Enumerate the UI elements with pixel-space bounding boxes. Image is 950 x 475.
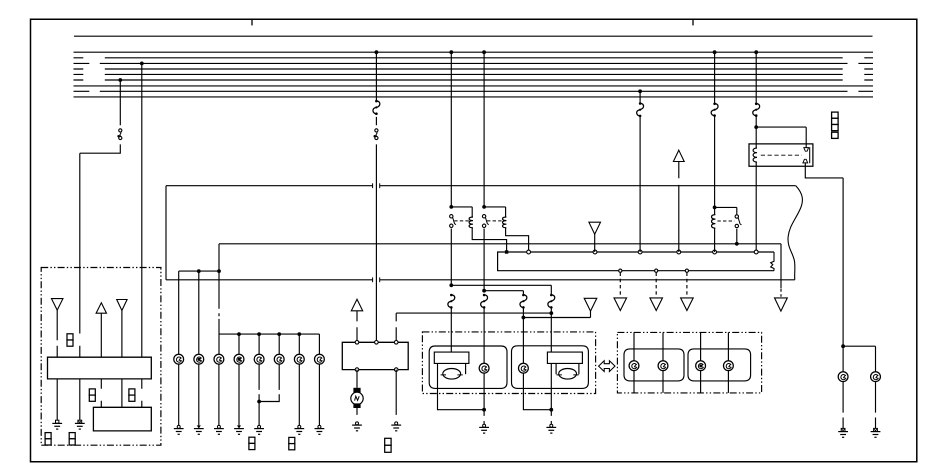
lamp1 wire <box>178 271 180 354</box>
right lamp 1 gnd wire <box>842 382 844 429</box>
to-marker triangle 1 <box>614 298 627 311</box>
junction on bus 6 <box>118 78 122 82</box>
opposite lamp dashed box <box>617 332 761 393</box>
lamp3 wire upper <box>218 271 220 354</box>
continuation wave <box>788 186 802 280</box>
headlamp A reflector <box>434 352 469 363</box>
lamp5 gnd wire <box>258 364 260 425</box>
line y318 <box>523 311 590 317</box>
to-marker stub 1 <box>619 273 621 297</box>
relay3 out wire <box>736 229 738 244</box>
line y313 <box>396 312 551 314</box>
junction on bus 1 (x484) <box>482 50 486 54</box>
unit C lamp 2 <box>658 361 668 371</box>
junction on bus 8 (x640) <box>638 89 642 93</box>
junction manifold 2 <box>277 332 281 336</box>
headlamp unit A outline <box>429 346 507 388</box>
DRL pin1 wire <box>356 311 358 343</box>
junction y410 B <box>549 408 553 412</box>
ground headlamp A <box>483 424 486 427</box>
junction x843 <box>841 344 845 348</box>
connector code b <box>129 389 135 395</box>
bus wire 2 <box>74 57 874 59</box>
right lamp 2 <box>871 372 881 382</box>
ground lamp4 <box>237 425 241 428</box>
lamp unit D outline <box>688 349 751 381</box>
to-marker triangle x781 <box>775 298 788 311</box>
to-marker stub 2 <box>655 273 657 297</box>
arrow marker (up) pin3 <box>96 303 106 313</box>
junction lamps 5-6 <box>257 400 261 404</box>
DRL pin circle 2 <box>375 341 379 345</box>
headlamp unit B outline <box>512 346 589 389</box>
pin1 wire <box>56 310 58 357</box>
junction x484 y291 <box>482 289 486 293</box>
main relay contact top <box>804 148 809 152</box>
block pin x679 <box>677 250 681 254</box>
arrow marker (down) pin4 <box>117 300 127 311</box>
harness line y186 (left) <box>166 185 373 187</box>
headlamp A out wire <box>438 363 485 409</box>
tail lamp bulb 3 <box>214 354 224 364</box>
relay3 coil <box>712 215 716 229</box>
block lower pin 2 <box>655 269 658 272</box>
lamp8 gnd wire <box>318 364 320 425</box>
relay2 junction <box>482 205 486 209</box>
relay3 link <box>717 220 734 222</box>
relay1 coil <box>469 217 473 228</box>
fuse x756 <box>753 103 760 116</box>
relay2 contact <box>482 215 485 218</box>
junction x451 y285 <box>449 283 453 287</box>
wire drop x640 <box>639 91 641 252</box>
branch y346 <box>843 346 875 372</box>
wire drop x715 <box>714 52 716 214</box>
lamp5 wire upper <box>258 334 260 354</box>
crossover y285 <box>451 285 551 294</box>
wire rect1 to rect2 c <box>141 379 143 407</box>
lamp2 gnd wire <box>198 364 200 425</box>
ground lamp2 <box>197 425 201 428</box>
main relay out left <box>755 166 757 250</box>
ground lamp3 <box>217 425 220 428</box>
harness line y186 (right) <box>380 185 796 187</box>
wire drop x376 <box>375 52 377 342</box>
DRL right gnd wire <box>395 370 397 415</box>
DRL relay block <box>342 342 408 369</box>
control unit block <box>48 357 152 379</box>
bus wire 9 <box>74 96 874 98</box>
arrow marker (down) pin1 <box>51 299 63 311</box>
wire rect1 to rect2 b <box>121 379 123 407</box>
to-marker triangle 2 <box>650 298 663 311</box>
ground motor <box>356 422 359 425</box>
connector code DRL <box>385 438 391 445</box>
unit C wire 1 <box>633 332 635 393</box>
lamp3 gnd wire <box>218 364 220 425</box>
block lower pin 1 <box>619 269 622 272</box>
loop left edge <box>165 186 167 280</box>
connector code a <box>89 389 95 395</box>
relay1 out wire <box>450 229 452 286</box>
unit D lamp 1 <box>696 361 706 371</box>
headlamp A bracket <box>465 363 467 374</box>
right lamp 1 <box>838 372 848 382</box>
ground right 1 <box>841 428 845 431</box>
relay1 link <box>454 220 469 222</box>
ground lamp8 <box>318 425 321 428</box>
bus wire 1 <box>74 51 874 53</box>
from-marker triangle x595 <box>589 222 601 234</box>
main relay block <box>749 144 813 166</box>
unit C lamp 1 <box>629 361 639 371</box>
to-marker triangle 3 <box>681 298 694 311</box>
junction manifold 3 <box>297 332 301 336</box>
bus wire 6 <box>74 79 874 81</box>
motor wire <box>356 370 358 388</box>
tail lamp bulb 1 <box>174 354 184 364</box>
inline connector x376 <box>375 129 378 132</box>
relay3 junction <box>713 206 717 210</box>
pin4 wire <box>121 311 123 358</box>
to-marker stub x781 <box>780 289 782 297</box>
main relay blade <box>809 147 811 163</box>
junction on bus 1 (x715) <box>713 50 717 54</box>
right lamp 1 wire <box>842 346 844 372</box>
lamp7 wire <box>298 334 300 354</box>
main relay contact stub bottom <box>804 163 806 166</box>
wire drop x451 <box>450 52 452 207</box>
headlamp B out wire <box>550 363 552 409</box>
relay2 out wire <box>483 229 485 291</box>
tail lamp bulb 6 <box>274 354 284 364</box>
junction x199 y271 <box>197 269 201 273</box>
tail lamp bulb 2 <box>194 354 204 364</box>
harness line y244 <box>219 244 781 288</box>
lamp1 gnd wire <box>178 364 180 425</box>
block pin x529 <box>527 250 531 254</box>
ground wire 2 <box>79 379 81 420</box>
right lamp 2 gnd wire <box>875 382 877 429</box>
fuse x451 <box>448 295 455 308</box>
fuse x551 <box>548 295 555 308</box>
junction on bus 1 (x756) <box>754 50 758 54</box>
connector code lamp7 <box>289 437 295 443</box>
junction y410 A <box>482 408 486 412</box>
ground lamp5 <box>258 425 261 428</box>
junction x737 y244 <box>735 242 739 246</box>
lamp unit C outline <box>624 349 684 381</box>
relay feed branch <box>756 127 806 144</box>
main relay contact stub top <box>805 144 807 148</box>
small lamp A <box>479 363 489 373</box>
relay3 coil out <box>714 228 716 252</box>
relay2 link <box>487 220 503 222</box>
relay3 contact branch <box>715 207 737 214</box>
lamp4 wire <box>238 334 240 354</box>
break tick b <box>379 183 381 188</box>
DRL pin circle 3 <box>394 341 398 345</box>
lamp6 wire upper <box>278 334 280 354</box>
relay1 block pin <box>505 250 508 253</box>
ground wire 1 <box>56 379 58 420</box>
tail lamp bulb 5 <box>254 354 264 364</box>
lamp8 wire <box>318 334 320 354</box>
fuse x376 <box>373 101 380 114</box>
from-marker triangle x590 <box>584 298 597 311</box>
small lamp B <box>519 363 529 373</box>
DRL pin circle 1 <box>355 341 359 345</box>
connector code c <box>45 433 51 439</box>
bus wire 8 <box>74 90 874 92</box>
junction on bus 1 (x451) <box>449 50 453 54</box>
inline connector on x120 wire <box>119 129 122 132</box>
relay2 coil branch <box>484 207 528 250</box>
manifold y271 <box>179 270 219 272</box>
wire x679 <box>678 162 680 253</box>
light control unit dashed box <box>41 268 161 446</box>
pin3 wire <box>100 313 102 357</box>
wire x595 <box>594 234 596 252</box>
junction on bus 1 (x376) <box>375 50 379 54</box>
gnd wire A <box>483 410 485 425</box>
wire x451 to headlamp <box>450 308 452 352</box>
block pin x756 <box>754 250 758 254</box>
block pin x640 <box>638 250 642 254</box>
sub block <box>93 407 151 431</box>
headlamp B reflector <box>547 352 582 363</box>
headlamp assembly dashed box <box>422 332 595 394</box>
small lamp A wire <box>483 373 485 410</box>
harness line y280 (right) <box>380 279 795 281</box>
unit C wire 2 <box>662 332 664 393</box>
unit D lamp 2 <box>724 361 734 371</box>
block lower pin 3 <box>685 269 688 272</box>
unit D wire 2 <box>727 332 729 393</box>
arrow marker (up) DRL <box>351 299 362 311</box>
junction x756 y127 <box>754 125 758 129</box>
break tick a <box>372 183 374 188</box>
block pin x715 <box>713 250 717 254</box>
wire x551 to headlamp <box>550 308 552 352</box>
junction manifold 0 <box>237 332 241 336</box>
connector code lamp5 <box>249 437 255 443</box>
lamp6 gnd wire <box>259 364 279 401</box>
fuse x640 <box>637 103 644 116</box>
arrow marker (up) x679 <box>673 150 684 161</box>
border tick mark left <box>251 19 253 25</box>
main relay contact bottom <box>803 159 808 163</box>
bus wire 5 <box>74 73 874 75</box>
junction x551 y313 <box>549 311 553 315</box>
lamp7 gnd wire <box>298 364 300 425</box>
DRL pin3 wire <box>395 313 397 342</box>
connector code d <box>69 433 75 439</box>
wire drop x142 <box>141 63 143 357</box>
manifold y334 <box>219 333 319 335</box>
relay3 contact <box>735 215 738 218</box>
wire x484 to lamp <box>483 308 485 363</box>
main relay link <box>761 154 802 156</box>
bus wire 7 <box>74 85 874 87</box>
block pin x595 <box>593 250 597 254</box>
top feed line <box>74 35 873 37</box>
ground lamp7 <box>298 425 301 428</box>
small lamp B wire <box>523 373 551 410</box>
headlamp B bracket <box>556 363 579 374</box>
connector stack <box>832 112 839 118</box>
relay1 contact <box>450 215 453 218</box>
motor gnd wire <box>356 408 358 415</box>
main relay coil <box>753 148 757 162</box>
tail lamp bulb 4 <box>234 354 244 364</box>
tail lamp bulb 8 <box>315 354 325 364</box>
border tick mark right <box>692 19 694 25</box>
crossover y291 <box>484 291 523 295</box>
motor M1 <box>353 388 360 393</box>
headlamp B bulb <box>559 369 577 380</box>
lamp2 wire <box>198 271 200 354</box>
junction x219 y271 <box>217 269 221 273</box>
wire drop x756 <box>755 52 757 144</box>
relay1 junction <box>449 205 453 209</box>
junction x523 y318 <box>522 316 526 320</box>
ground headlamp B <box>550 424 553 427</box>
relay1 coil branch <box>451 207 506 252</box>
to-marker stub 3 <box>686 273 688 297</box>
wire drop x484 <box>483 52 485 207</box>
fuse x715 <box>711 103 718 116</box>
break tick d <box>379 277 381 282</box>
relay2 coil <box>503 217 507 228</box>
break tick c <box>372 277 374 282</box>
tail lamp bulb 7 <box>294 354 304 364</box>
fuse x484 <box>481 295 488 308</box>
wire drop x120 <box>80 80 121 357</box>
ground right 2 <box>874 428 878 431</box>
wire rect1 to rect2 a <box>100 379 102 407</box>
DRL pin circle 4 <box>355 368 359 372</box>
junction block <box>498 252 774 271</box>
feed drop x219 <box>218 244 220 271</box>
ground (unit) 1 <box>56 420 59 423</box>
junction on bus 3 <box>140 62 144 66</box>
double arrow symbol <box>599 361 615 372</box>
main relay out right <box>805 166 843 346</box>
bus wire 3 <box>74 62 874 64</box>
fuse x523 <box>520 295 527 308</box>
unit D wire 1 <box>700 332 702 393</box>
bus wire 4 <box>74 68 874 70</box>
DRL pin circle 5 <box>394 368 398 372</box>
wire x523 to lamp <box>522 308 524 363</box>
lamp4 gnd wire <box>238 364 240 425</box>
ground lamp1 <box>177 425 180 428</box>
main relay coil wire <box>755 144 757 166</box>
ground DRL <box>395 422 398 425</box>
connector code on pin wires <box>67 334 73 340</box>
harness line y280 (left) <box>166 279 373 281</box>
headlamp A bulb <box>443 369 461 380</box>
junction manifold 1 <box>257 332 261 336</box>
ground (unit) 2 <box>78 420 82 423</box>
gnd wire B <box>550 410 552 425</box>
